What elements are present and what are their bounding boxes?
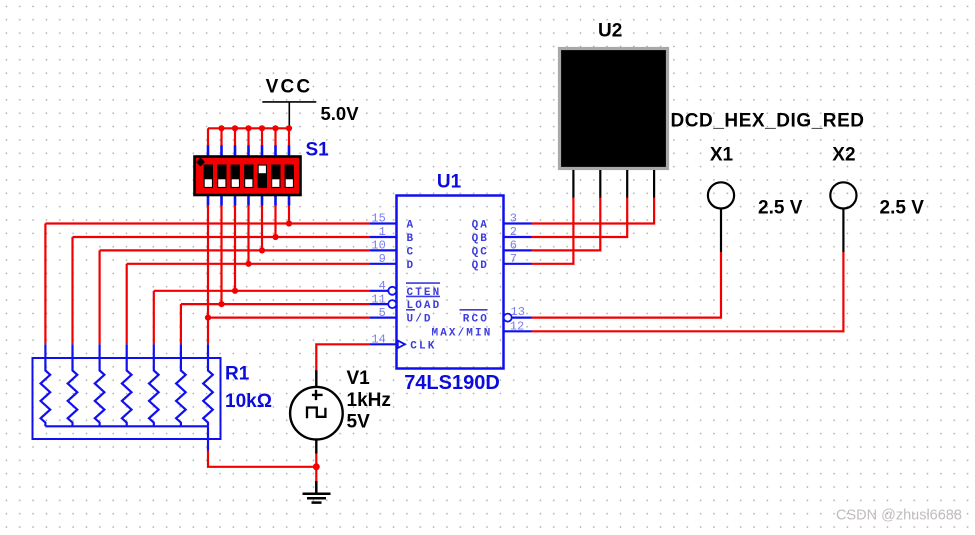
wire S1 top pin 3 drop xyxy=(234,128,236,146)
junction on VCC bus at S1 pin 3 xyxy=(232,125,238,131)
wire S1 bottom pin 5 vertical xyxy=(261,206,263,251)
wire net A horizontal (R1-1 to U1) xyxy=(45,222,370,224)
wire S1 top pin 7 drop xyxy=(288,128,290,146)
svg-text:B: B xyxy=(407,233,416,245)
U1 pin 3 stub xyxy=(504,222,532,224)
junction on VCC bus at S1 pin 6 xyxy=(272,125,278,131)
svg-text:A: A xyxy=(407,220,416,232)
wire S1 bottom pin 2 vertical xyxy=(220,206,222,305)
switch S1 bottom pin stubs xyxy=(208,196,289,206)
wire R1 return to ground node xyxy=(208,451,316,467)
wire net QC (U1 to U2) xyxy=(532,197,601,250)
U1 pin 13 inversion bubble xyxy=(504,314,512,322)
source V1 top lead xyxy=(315,370,317,387)
wire net LOAD horizontal (R1-6 to U1) xyxy=(181,303,370,305)
wire S1 top pin 4 drop xyxy=(247,128,249,146)
wire S1 pin1 to R1-7 continuation xyxy=(207,318,209,345)
source V1 plus sign xyxy=(312,390,323,400)
svg-text:U1: U1 xyxy=(437,172,462,193)
U2 pin 2 lead xyxy=(599,170,601,198)
svg-text:7: 7 xyxy=(510,252,517,266)
svg-text:QB: QB xyxy=(472,233,489,245)
svg-text:3: 3 xyxy=(510,212,517,226)
wire S1 bottom pin 1 vertical xyxy=(207,206,209,318)
U1 RCO overline xyxy=(460,309,488,311)
junction ground node xyxy=(313,463,320,470)
U1 CLK edge triangle xyxy=(398,341,405,348)
resistor R1-5 xyxy=(149,344,159,426)
svg-text:10: 10 xyxy=(371,239,385,253)
probe X2 lead (black) xyxy=(842,208,844,252)
U1 U overline xyxy=(406,309,415,311)
U1 CTEN overline xyxy=(406,282,440,284)
U1 pin 15 stub xyxy=(370,222,397,224)
wire R1 bottom bus xyxy=(45,425,208,427)
svg-text:U/D: U/D xyxy=(407,314,433,326)
wire X2 to U1 xyxy=(532,252,844,331)
wire CLK net (V1 to U1 pin 14) xyxy=(316,344,370,370)
switch S1 actuator 6 (down) xyxy=(272,179,279,187)
junction net A at S1 pin 7 xyxy=(286,220,292,226)
svg-text:11: 11 xyxy=(371,292,385,306)
source V1 pulse glyph xyxy=(307,408,325,419)
svg-text:1kHz: 1kHz xyxy=(347,390,391,411)
svg-text:12: 12 xyxy=(510,320,524,334)
wire net UD horizontal (R1-7 to U1) xyxy=(208,317,370,319)
wire S1 top pin 5 drop xyxy=(261,128,263,146)
wire net D drop to R1-4 xyxy=(126,264,128,345)
junction net LOAD at S1 pin 2 xyxy=(218,301,224,307)
svg-text:74LS190D: 74LS190D xyxy=(404,372,500,394)
svg-text:D: D xyxy=(407,260,416,272)
svg-text:9: 9 xyxy=(379,252,386,266)
display U2 body xyxy=(560,49,668,169)
switch S1 actuator 2 (down) xyxy=(218,179,225,187)
junction net D at S1 pin 4 xyxy=(245,261,251,267)
resistor pack R1 outline box xyxy=(33,358,221,439)
ground symbol xyxy=(303,481,331,503)
svg-text:MAX/MIN: MAX/MIN xyxy=(432,327,493,339)
U1 pin 11 stub xyxy=(370,303,388,305)
wire net CTEN drop to R1-5 xyxy=(153,291,155,345)
svg-text:RCO: RCO xyxy=(463,314,489,326)
junction net B at S1 pin 6 xyxy=(272,234,278,240)
U1 pin 9 stub xyxy=(370,263,397,265)
U1 pin 14 stub (CLK) xyxy=(370,343,397,345)
svg-text:QC: QC xyxy=(472,247,489,259)
power symbol VCC xyxy=(262,102,316,128)
svg-text:5V: 5V xyxy=(347,412,371,433)
junction on VCC bus at S1 pin 7 xyxy=(286,125,292,131)
wire net QD (U1 to U2) xyxy=(532,197,574,264)
svg-text:4: 4 xyxy=(379,279,386,293)
wire net B drop to R1-2 xyxy=(71,237,73,344)
resistor R1-4 xyxy=(122,344,132,426)
wire X1 to U1 xyxy=(532,252,722,318)
U1 pin 6 stub xyxy=(504,249,532,251)
resistor R1-7 xyxy=(203,344,213,426)
U2 pin 4 lead xyxy=(653,170,655,198)
switch S1 body xyxy=(195,157,301,196)
wire net C drop to R1-3 xyxy=(98,250,100,344)
svg-text:QA: QA xyxy=(472,220,489,232)
wire net QB (U1 to U2) xyxy=(532,197,628,237)
switch S1 slot 4 xyxy=(244,165,253,189)
op U1 box xyxy=(397,196,504,369)
wire S1 bottom pin 6 vertical xyxy=(274,206,276,238)
svg-text:13: 13 xyxy=(511,305,525,319)
probe X1 lead (black) xyxy=(720,208,722,252)
resistor R1-2 xyxy=(68,344,78,426)
switch S1 actuator 4 (down) xyxy=(245,179,252,187)
svg-text:X2: X2 xyxy=(832,145,855,166)
svg-text:CLK: CLK xyxy=(410,340,436,352)
svg-text:CSDN @zhusl6688: CSDN @zhusl6688 xyxy=(836,508,962,524)
wire net A drop to R1-1 xyxy=(44,224,46,345)
svg-text:DCD_HEX_DIG_RED: DCD_HEX_DIG_RED xyxy=(671,111,865,132)
U1 pin 13 stub (RCO) xyxy=(512,317,532,319)
svg-text:U2: U2 xyxy=(598,21,622,42)
svg-text:C: C xyxy=(407,247,416,259)
switch S1 slot 5 xyxy=(258,165,267,189)
svg-text:V1: V1 xyxy=(347,368,371,389)
resistor R1-1 xyxy=(41,344,51,426)
resistor R1-3 xyxy=(95,344,105,426)
junction net CTEN at S1 pin 3 xyxy=(232,288,238,294)
wire net LOAD drop to R1-6 xyxy=(180,304,182,344)
U1 pin 4 stub xyxy=(370,290,388,292)
resistor R1-6 xyxy=(176,344,186,426)
wire S1 top pin 6 drop xyxy=(274,128,276,146)
svg-text:10kΩ: 10kΩ xyxy=(225,391,272,412)
U1 pin 11 inversion bubble xyxy=(388,300,396,308)
switch S1 actuator 5 (up) xyxy=(259,166,266,174)
junction on VCC bus at S1 pin 2 xyxy=(218,125,224,131)
svg-text:1: 1 xyxy=(379,225,386,239)
switch S1 slot 1 xyxy=(204,165,213,189)
switch S1 top pin stubs xyxy=(208,145,289,155)
junction net UD at S1 pin 1 xyxy=(205,315,211,321)
U2 pin 3 lead xyxy=(626,170,628,198)
U1 pin 7 stub xyxy=(504,263,532,265)
wire S1 bottom pin 3 vertical xyxy=(234,206,236,291)
svg-text:2: 2 xyxy=(510,225,517,239)
junction on VCC bus at S1 pin 5 xyxy=(259,125,265,131)
switch S1 actuator 3 (down) xyxy=(232,179,239,187)
U1 pin 2 stub xyxy=(504,236,532,238)
svg-text:S1: S1 xyxy=(306,140,330,161)
wire S1 bottom pin 7 vertical xyxy=(288,206,290,224)
probe X2 circle xyxy=(830,182,856,208)
svg-text:5.0V: 5.0V xyxy=(321,103,360,124)
U1 pin 4 inversion bubble xyxy=(388,287,396,295)
svg-text:2.5 V: 2.5 V xyxy=(880,198,925,219)
switch S1 pin-1 diamond mark xyxy=(196,158,205,167)
wire S1 top pin 1 drop xyxy=(207,128,209,146)
svg-text:VCC: VCC xyxy=(266,77,313,98)
probe X1 circle xyxy=(708,182,734,208)
svg-text:5: 5 xyxy=(379,306,386,320)
wire R1 bus exit (blue) xyxy=(207,426,209,451)
U1 pin 12 stub (MAX/MIN) xyxy=(504,330,532,332)
switch S1 slot 3 xyxy=(231,165,240,189)
switch S1 actuator 1 (down) xyxy=(205,179,212,187)
svg-text:2.5 V: 2.5 V xyxy=(758,198,803,219)
switch S1 slot 2 xyxy=(217,165,226,189)
svg-text:15: 15 xyxy=(371,212,385,226)
svg-text:14: 14 xyxy=(371,333,385,347)
junction on VCC bus at S1 pin 4 xyxy=(245,125,251,131)
svg-text:QD: QD xyxy=(472,260,489,272)
wire VCC bus xyxy=(208,127,289,129)
switch S1 actuator 7 (down) xyxy=(286,179,293,187)
wire V1 bottom to ground xyxy=(315,454,317,482)
svg-text:6: 6 xyxy=(510,239,517,253)
wire net D horizontal (R1-4 to U1) xyxy=(127,263,370,265)
wire net C horizontal (R1-3 to U1) xyxy=(100,249,370,251)
U1 LOAD overline xyxy=(406,295,440,297)
junction net C at S1 pin 5 xyxy=(259,247,265,253)
wire net CTEN horizontal (R1-5 to U1) xyxy=(154,290,370,292)
U2 pin 1 lead xyxy=(572,170,574,198)
switch S1 slot 6 xyxy=(271,165,280,189)
source V1 bottom lead xyxy=(315,439,317,453)
wire S1 top pin 2 drop xyxy=(220,128,222,146)
svg-text:R1: R1 xyxy=(225,364,250,385)
svg-text:X1: X1 xyxy=(710,145,734,166)
wire net B horizontal (R1-2 to U1) xyxy=(73,236,371,238)
U1 pin 5 stub xyxy=(370,317,397,319)
wire S1 bottom pin 4 vertical xyxy=(247,206,249,264)
U1 pin 1 stub xyxy=(370,236,397,238)
switch S1 slot 7 xyxy=(285,165,294,189)
wire net QA (U1 to U2) xyxy=(532,197,655,224)
source V1 circle xyxy=(290,387,343,440)
U1 pin 10 stub xyxy=(370,249,397,251)
